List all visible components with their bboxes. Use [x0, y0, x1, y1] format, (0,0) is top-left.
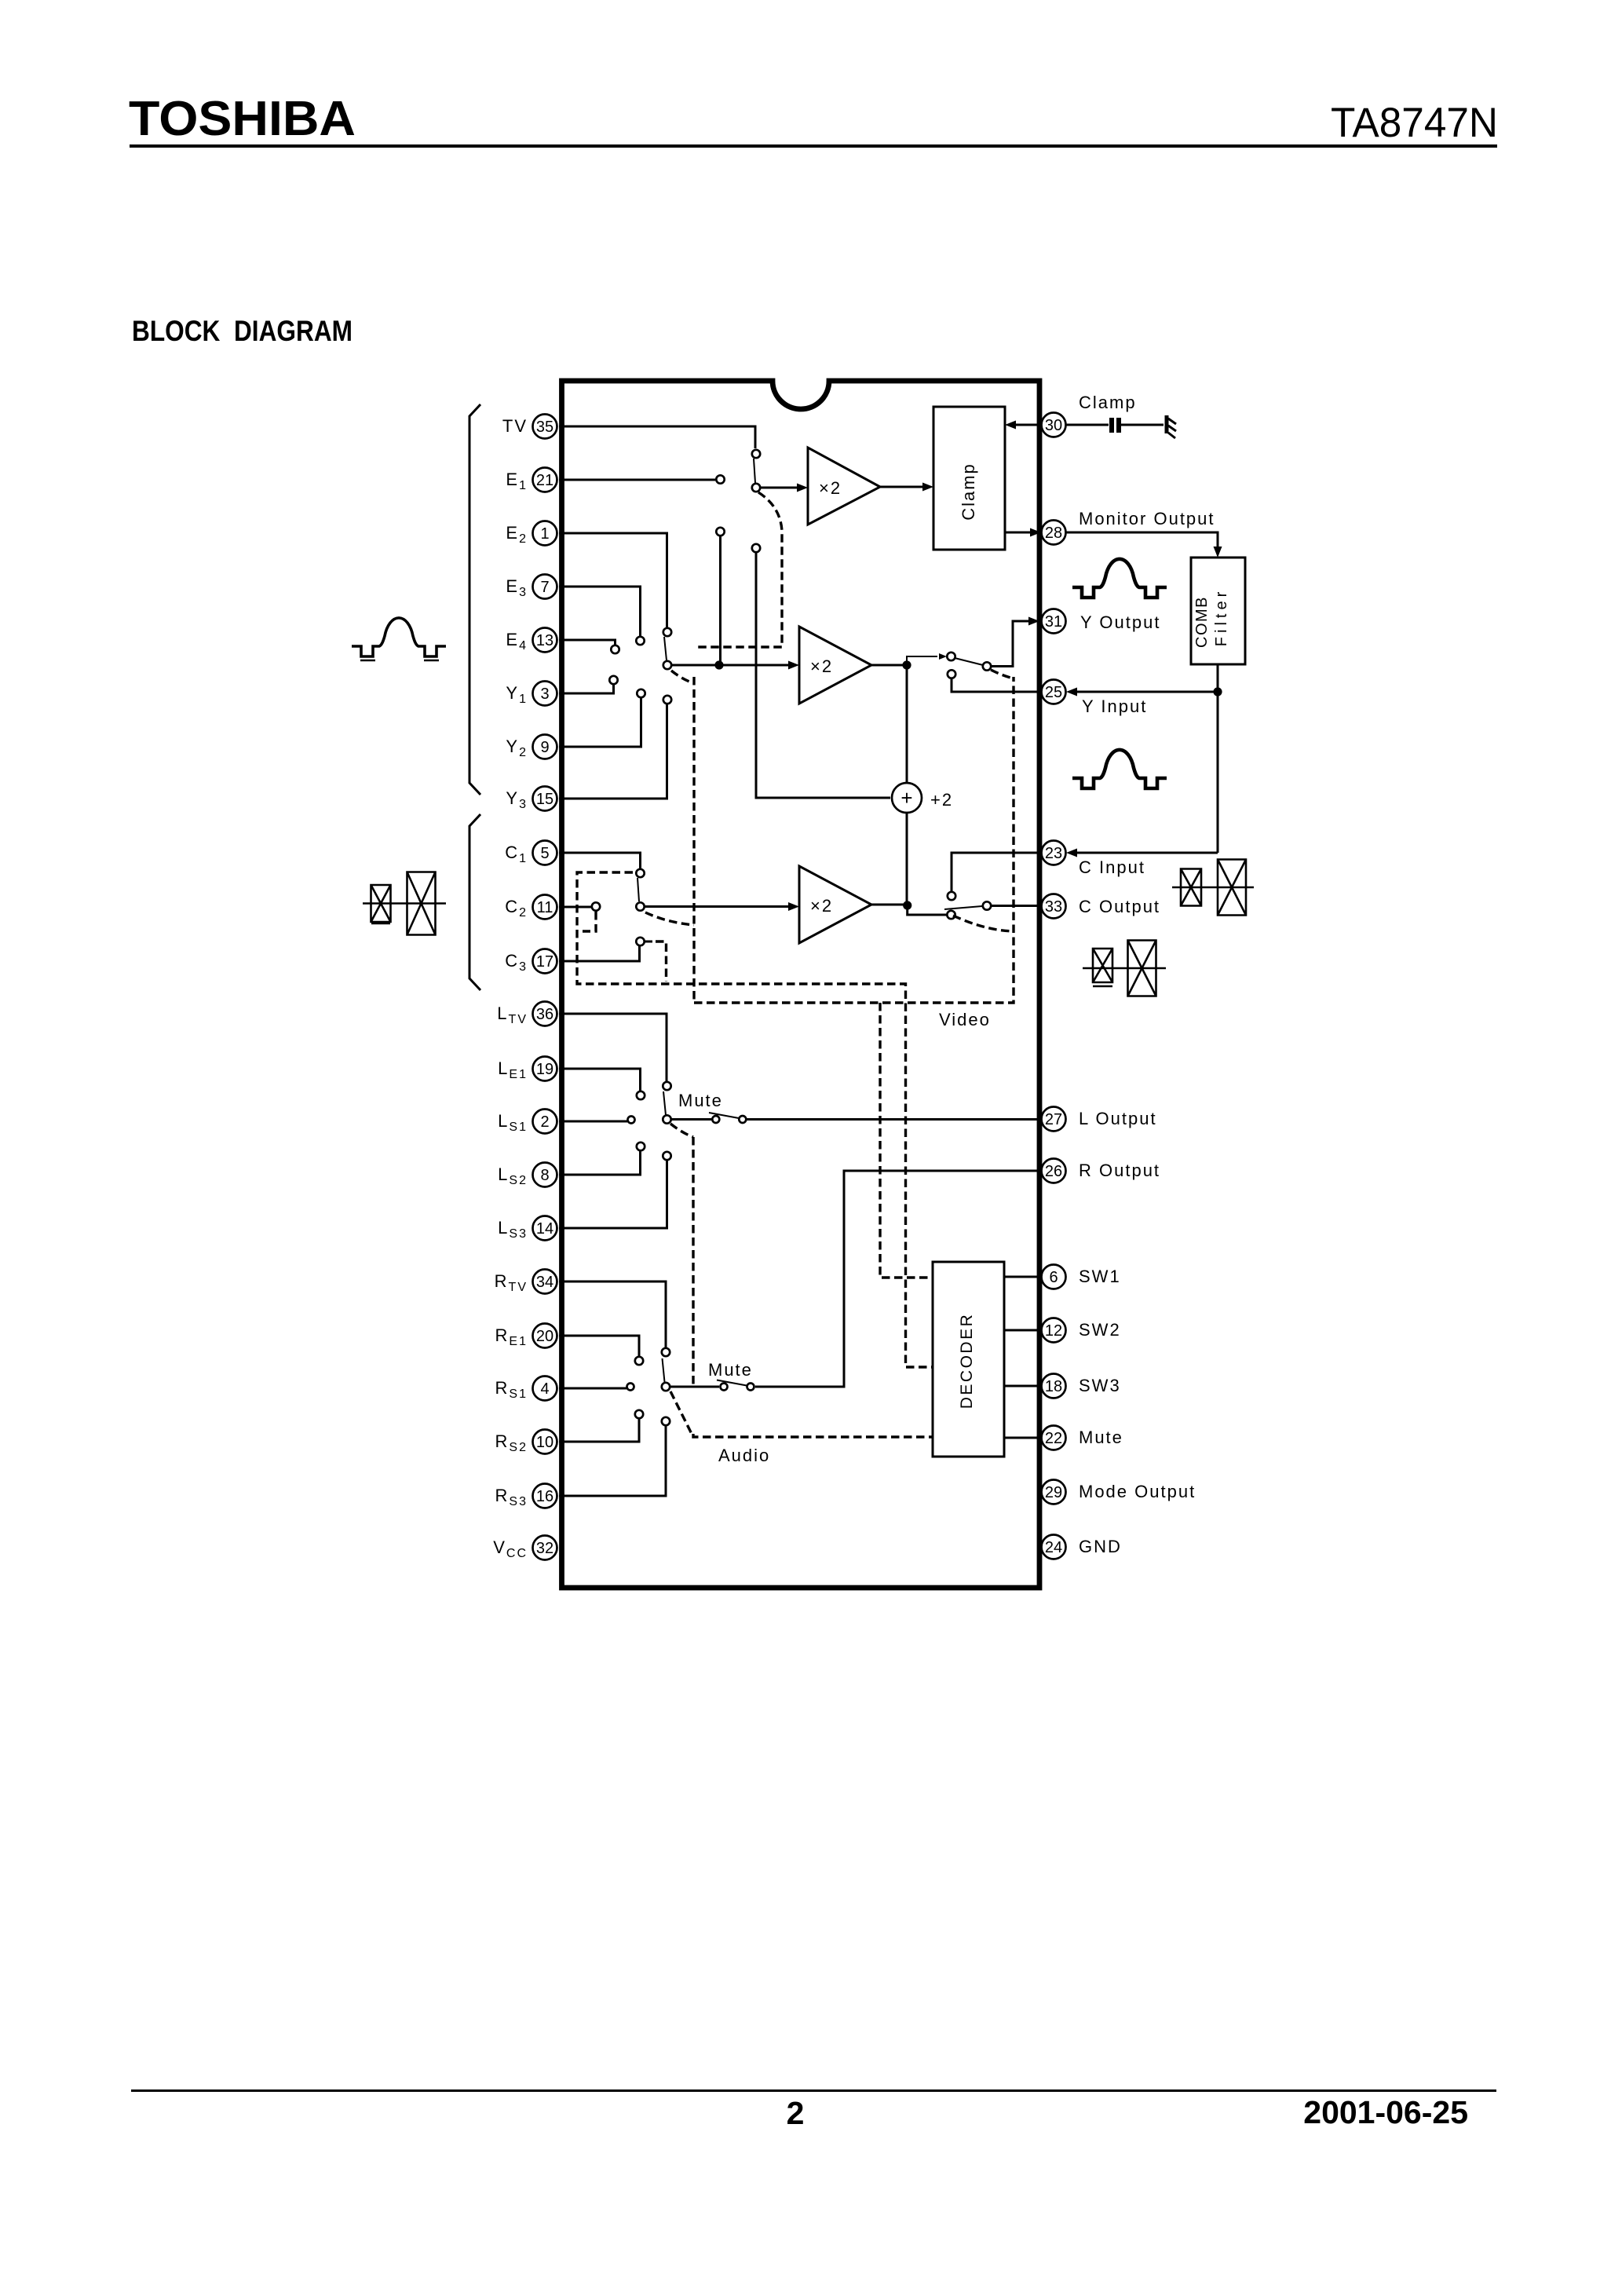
label Y Input	[1082, 696, 1147, 716]
wire L common to mute switch	[672, 1118, 712, 1121]
C output switch common contact	[983, 901, 991, 909]
pin VCC (32) left pin circle and label	[493, 1536, 557, 1561]
pin RE1 (20) left pin circle and label	[495, 1324, 557, 1349]
wire C1 pin 5 to chroma switch contact	[559, 853, 645, 878]
label SW1	[1079, 1267, 1121, 1286]
dashed chroma linkage C3 stub	[645, 941, 667, 982]
svg-text:Y1: Y1	[506, 683, 528, 706]
adder circle +	[892, 783, 922, 813]
wire L-S1 pin 2 to L switch contact	[559, 1117, 635, 1124]
wire Y3 pin 15 to video switch contact	[559, 696, 671, 799]
wire clamp to pin 28 with arrow	[1005, 528, 1041, 537]
svg-text:E1: E1	[506, 470, 528, 492]
wire A2 junction down to adder	[906, 665, 908, 783]
pin LE1 (19) left pin circle and label	[498, 1057, 557, 1082]
svg-text:3: 3	[540, 686, 549, 703]
wire video common to amp A2 with junction	[672, 660, 799, 669]
svg-text:DECODER: DECODER	[958, 1313, 976, 1409]
switch S1 alternate contact to Y-line tap	[716, 528, 724, 665]
label SW3	[1079, 1376, 1121, 1395]
R audio switch lever	[663, 1358, 665, 1382]
svg-text:19: 19	[536, 1061, 553, 1078]
svg-text:16: 16	[536, 1488, 553, 1505]
svg-text:2001-06-25: 2001-06-25	[1303, 2094, 1468, 2130]
svg-text:×2: ×2	[810, 896, 833, 916]
label L Output	[1079, 1109, 1157, 1128]
label SW2	[1079, 1320, 1121, 1340]
switch S1 lever	[754, 459, 755, 483]
wire E1 pin 21 to S1 contact	[559, 475, 725, 483]
svg-text:TA8747N: TA8747N	[1331, 100, 1498, 146]
wire L-S2 pin 8 to L switch contact	[559, 1143, 645, 1175]
svg-text:LTV: LTV	[497, 1004, 528, 1026]
svg-text:33: 33	[1045, 898, 1062, 916]
svg-text:13: 13	[536, 632, 553, 649]
svg-text:18: 18	[1045, 1378, 1062, 1395]
pin 31 right pin circle	[1042, 609, 1066, 634]
wire decoder to pin 18 SW3	[1004, 1385, 1041, 1387]
label +2 at adder	[930, 790, 953, 810]
C output switch contact from A3	[947, 911, 955, 919]
pin E3 (7) left pin circle and label	[506, 575, 557, 600]
switch S1 fixed contact (TV)	[752, 450, 760, 458]
dashed chroma linkage upper bus	[577, 872, 933, 1367]
label Monitor Output	[1079, 509, 1215, 528]
svg-text:8: 8	[540, 1167, 549, 1184]
dashed link C output switch lever	[953, 916, 1014, 931]
wire pin 23 C input from comb junction with arrow	[1066, 849, 1218, 857]
video switch lever	[664, 637, 667, 660]
pin LS2 (8) left pin circle and label	[498, 1163, 557, 1188]
chroma switch lever	[637, 878, 639, 901]
svg-text:24: 24	[1045, 1539, 1062, 1556]
label Clamp	[1079, 393, 1137, 412]
pin 23 right pin circle	[1042, 841, 1066, 865]
pin 26 right pin circle	[1042, 1159, 1066, 1183]
wire R-S2 pin 10 to R switch contact	[559, 1410, 643, 1442]
wire E4 pin 13 to video switch contact	[559, 640, 619, 653]
svg-text:6: 6	[1049, 1269, 1058, 1286]
op-amp A2 x2	[799, 627, 871, 704]
wire decoder to pin 6 SW1	[1004, 1276, 1041, 1278]
wire decoder to pin 22 Mute	[1004, 1437, 1041, 1439]
IC package outline with notch	[562, 381, 1040, 1588]
wire L-TV pin 36 to L switch contact	[559, 1014, 671, 1090]
svg-text:RTV: RTV	[495, 1271, 528, 1294]
svg-text:TOSHIBA: TOSHIBA	[129, 92, 356, 146]
svg-text:20: 20	[536, 1328, 553, 1345]
waveform symbol luma at monitor output	[1072, 559, 1167, 598]
L audio switch common contact	[663, 1115, 670, 1123]
switch S1 common contact	[752, 484, 760, 492]
svg-text:35: 35	[536, 419, 553, 436]
svg-text:SW2: SW2	[1079, 1320, 1121, 1340]
C output switch lever	[944, 906, 982, 909]
pin C2 (11) left pin circle and label	[505, 895, 557, 920]
svg-text:9: 9	[540, 739, 549, 756]
svg-text:2: 2	[787, 2095, 805, 2131]
pin Y1 (3) left pin circle and label	[506, 682, 557, 707]
svg-text:C1: C1	[505, 843, 528, 865]
bracket group C1-C3	[469, 814, 480, 990]
dashed control from S1 lever to video bus	[694, 492, 782, 647]
block DECODER	[933, 1262, 1004, 1457]
svg-text:+: +	[901, 786, 912, 810]
block Clamp	[933, 407, 1005, 550]
svg-text:36: 36	[536, 1006, 553, 1023]
pin E1 (21) left pin circle and label	[506, 468, 557, 493]
dashed link Y output switch lever	[991, 670, 1014, 678]
thin tap A2 output to Y output switch	[907, 653, 947, 665]
svg-text:22: 22	[1045, 1430, 1062, 1447]
wire pin 25 Y input from comb junction with arrow	[1066, 688, 1218, 696]
svg-text:Y3: Y3	[506, 788, 528, 811]
chroma switch common contact	[636, 902, 644, 910]
svg-text:Mute: Mute	[678, 1091, 723, 1110]
label Mute (R)	[708, 1360, 753, 1380]
dashed link chroma switch lever	[645, 912, 694, 925]
wire C switch common to pin 33	[992, 905, 1041, 907]
svg-text:15: 15	[536, 791, 553, 808]
header rule	[130, 144, 1497, 148]
svg-text:GND: GND	[1079, 1537, 1122, 1556]
chroma burst symbol (left of C pins)	[363, 872, 446, 935]
wire R-E1 pin 20 to R switch contact	[559, 1336, 643, 1365]
wire S1 common to amp A1 with arrow	[761, 484, 808, 492]
wire C2 pin 11 to chroma switch contact	[559, 902, 600, 910]
wire L mute to pin 27	[747, 1118, 1042, 1121]
svg-text:TV: TV	[502, 416, 528, 436]
chroma burst symbol at C output	[1083, 941, 1166, 996]
label Mute	[1079, 1428, 1123, 1447]
chroma burst symbol at C input	[1172, 860, 1254, 916]
Y output switch common contact	[983, 662, 991, 670]
svg-text:Audio: Audio	[718, 1446, 770, 1465]
svg-text:4: 4	[540, 1380, 549, 1398]
wire pin 30 to clamp with arrow	[1005, 421, 1042, 430]
pin Y2 (9) left pin circle and label	[506, 735, 557, 760]
svg-text:27: 27	[1045, 1111, 1062, 1128]
wire pin 28 to comb filter with arrow	[1066, 532, 1222, 558]
svg-text:VCC: VCC	[493, 1537, 528, 1560]
svg-text:C2: C2	[505, 897, 528, 919]
pin TV (35) left pin circle and label	[502, 415, 557, 439]
svg-text:Clamp: Clamp	[959, 462, 978, 521]
pin 6 right pin circle	[1042, 1265, 1066, 1289]
pin 27 right pin circle	[1042, 1107, 1066, 1132]
svg-text:11: 11	[537, 899, 553, 916]
wire E3 pin 7 to video switch contact	[559, 587, 645, 645]
wire Y switch common to pin 31 with arrow	[992, 617, 1039, 667]
svg-text:Mute: Mute	[1079, 1428, 1123, 1447]
wire junction to C output switch contact	[908, 905, 946, 915]
dashed link video switch lever	[671, 671, 694, 683]
wire A3 output to junction	[871, 901, 911, 909]
pin 29 right pin circle	[1042, 1480, 1066, 1504]
svg-text:7: 7	[540, 579, 549, 596]
svg-text:E2: E2	[506, 523, 528, 546]
svg-text:+2: +2	[930, 790, 953, 810]
svg-text:14: 14	[536, 1220, 553, 1238]
svg-text:Y Output: Y Output	[1080, 612, 1160, 632]
op-amp A3 x2	[799, 866, 871, 943]
switch S1 alternate contact to adder tap	[752, 544, 890, 798]
svg-text:Filter: Filter	[1213, 588, 1230, 646]
header TOSHIBA logo	[129, 92, 356, 146]
pin LS1 (2) left pin circle and label	[498, 1110, 557, 1135]
wire R-S3 pin 16 to R switch contact	[559, 1417, 670, 1496]
wire R common to mute switch	[670, 1386, 719, 1388]
svg-text:SW3: SW3	[1079, 1376, 1121, 1395]
capacitor on clamp pin 30 line	[1066, 418, 1164, 433]
label Mode Output	[1079, 1482, 1196, 1501]
waveform symbol luma (left of E/Y pins)	[352, 618, 446, 660]
svg-text:21: 21	[536, 472, 553, 489]
Y output switch lever	[955, 658, 983, 665]
wire L-E1 pin 19 to L switch contact	[559, 1069, 645, 1099]
video switch common contact	[663, 661, 671, 669]
svg-text:Y2: Y2	[506, 737, 528, 759]
svg-text:SW1: SW1	[1079, 1267, 1121, 1286]
wire A1 to clamp with arrow	[880, 483, 933, 492]
pin RS1 (4) left pin circle and label	[495, 1377, 557, 1402]
svg-text:25: 25	[1045, 684, 1062, 701]
pin 22 right pin circle	[1042, 1426, 1066, 1450]
label C Input	[1079, 857, 1145, 877]
dashed video bus lower horizontal to output switches	[694, 677, 1014, 1003]
svg-text:COMB: COMB	[1193, 596, 1211, 648]
svg-text:×2: ×2	[819, 478, 842, 498]
pin 12 right pin circle	[1042, 1318, 1066, 1343]
svg-text:Clamp: Clamp	[1079, 393, 1137, 412]
label Video	[939, 1010, 991, 1029]
svg-text:34: 34	[536, 1274, 553, 1291]
pin LS3 (14) left pin circle and label	[498, 1216, 557, 1241]
L audio switch lever	[663, 1091, 666, 1115]
svg-text:32: 32	[536, 1540, 553, 1557]
pin 25 right pin circle	[1042, 680, 1066, 704]
svg-text:23: 23	[1045, 845, 1062, 862]
svg-text:Mode Output: Mode Output	[1079, 1482, 1196, 1501]
pin LTV (36) left pin circle and label	[497, 1002, 557, 1027]
footer date	[1303, 2094, 1468, 2130]
pin 24 right pin circle	[1042, 1535, 1066, 1559]
pin E2 (1) left pin circle and label	[506, 521, 557, 547]
svg-text:LE1: LE1	[498, 1058, 528, 1081]
dashed audio control vertical to decoder	[693, 1137, 933, 1437]
svg-text:1: 1	[540, 525, 549, 543]
svg-text:E3: E3	[506, 576, 528, 599]
svg-text:BLOCK DIAGRAM: BLOCK DIAGRAM	[132, 315, 353, 347]
svg-text:E4: E4	[506, 630, 528, 653]
pin C1 (5) left pin circle and label	[505, 841, 557, 866]
svg-text:17: 17	[536, 953, 553, 971]
pin RS2 (10) left pin circle and label	[495, 1430, 557, 1455]
pin C3 (17) left pin circle and label	[505, 949, 557, 974]
pin 28 right pin circle	[1042, 521, 1066, 545]
svg-text:RS3: RS3	[495, 1486, 528, 1508]
R audio switch common contact	[662, 1383, 670, 1391]
label Mute (L)	[678, 1091, 723, 1110]
label C Output	[1079, 897, 1160, 916]
wire Y1 pin 3 to video switch contact	[559, 676, 618, 693]
R mute switch contacts and lever	[717, 1380, 754, 1391]
svg-text:10: 10	[536, 1434, 553, 1451]
svg-text:Video: Video	[939, 1010, 991, 1029]
pin RTV (34) left pin circle and label	[495, 1270, 557, 1295]
label GND	[1079, 1537, 1122, 1556]
dashed control branch to decoder SW input	[880, 1003, 933, 1278]
pin 33 right pin circle	[1042, 894, 1066, 919]
waveform symbol luma at Y input	[1072, 750, 1167, 788]
wire R mute to pin 26	[755, 1171, 1041, 1387]
heading BLOCK DIAGRAM	[132, 315, 353, 347]
svg-text:5: 5	[540, 845, 549, 862]
svg-text:RS1: RS1	[495, 1378, 528, 1401]
svg-text:30: 30	[1045, 417, 1062, 434]
C output switch contact from pin 23	[948, 853, 1041, 900]
svg-text:×2: ×2	[810, 656, 833, 676]
pin 18 right pin circle	[1042, 1374, 1066, 1398]
svg-text:12: 12	[1045, 1322, 1062, 1340]
header part number TA8747N	[1331, 100, 1498, 146]
bracket group TV-Y3	[469, 404, 480, 795]
svg-text:2: 2	[540, 1113, 549, 1131]
wire decoder to pin 12 SW2	[1004, 1329, 1041, 1332]
dashed video control vertical	[692, 677, 695, 1003]
wire A2 output to junction	[871, 660, 911, 669]
svg-text:26: 26	[1045, 1163, 1062, 1180]
dashed audio link R lever	[670, 1391, 692, 1434]
label R Output	[1079, 1161, 1160, 1180]
wire C3 pin 17 to chroma switch contact	[559, 938, 645, 961]
footer page number	[787, 2095, 805, 2131]
op-amp A1 x2	[808, 448, 880, 525]
svg-text:31: 31	[1045, 613, 1062, 631]
svg-text:C Output: C Output	[1079, 897, 1160, 916]
wire Y2 pin 9 to video switch contact	[559, 689, 645, 747]
svg-text:29: 29	[1045, 1484, 1062, 1501]
wire R-TV pin 34 to R switch contact	[559, 1281, 670, 1356]
wire R-S1 pin 4 to R switch contact	[559, 1384, 634, 1391]
pin E4 (13) left pin circle and label	[506, 628, 557, 653]
wire TV pin 35 to switch S1 contact	[559, 426, 755, 448]
ground symbol at clamp capacitor	[1167, 415, 1176, 438]
svg-text:C3: C3	[505, 951, 528, 974]
svg-text:C Input: C Input	[1079, 857, 1145, 877]
wire L-S3 pin 14 to L switch contact	[559, 1152, 671, 1228]
dashed audio control from L lever	[670, 1124, 693, 1137]
svg-text:LS3: LS3	[498, 1218, 528, 1241]
Y output switch contact to pin 25	[948, 670, 1041, 692]
svg-text:R Output: R Output	[1079, 1161, 1160, 1180]
L mute switch contacts and lever	[709, 1113, 746, 1123]
wire adder output down to C output junction	[906, 813, 908, 905]
svg-text:LS1: LS1	[498, 1111, 528, 1134]
block COMB Filter	[1191, 558, 1245, 664]
Y output switch contact from A2	[947, 653, 955, 660]
svg-text:Mute: Mute	[708, 1360, 753, 1380]
pin RS3 (16) left pin circle and label	[495, 1484, 557, 1509]
svg-text:Monitor Output: Monitor Output	[1079, 509, 1215, 528]
svg-text:RE1: RE1	[495, 1325, 528, 1348]
dashed chroma linkage C2 hook	[583, 912, 596, 931]
footer rule	[131, 2089, 1496, 2092]
wire chroma common to amp A3 with arrow	[645, 902, 799, 911]
svg-text:Y Input: Y Input	[1082, 696, 1147, 716]
wire E2 pin 1 to video switch contact	[559, 533, 671, 636]
wire comb filter output to Y/C input junction	[1213, 664, 1222, 853]
svg-text:28: 28	[1045, 525, 1062, 542]
pin Y3 (15) left pin circle and label	[506, 787, 557, 812]
label Y Output	[1080, 612, 1160, 632]
svg-text:RS2: RS2	[495, 1431, 528, 1454]
svg-text:L Output: L Output	[1079, 1109, 1157, 1128]
pin 30 right pin circle	[1042, 413, 1066, 437]
label Audio	[718, 1446, 770, 1465]
svg-text:LS2: LS2	[498, 1164, 528, 1187]
